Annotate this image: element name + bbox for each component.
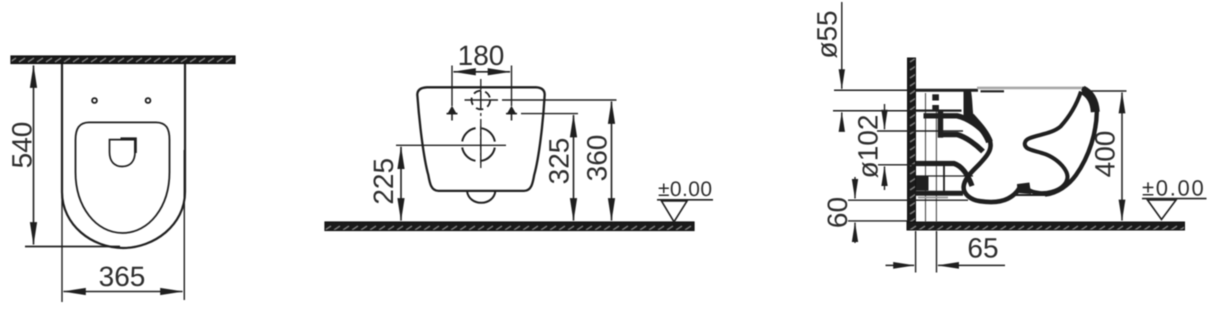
svg-text:325: 325 bbox=[544, 138, 575, 185]
svg-text:225: 225 bbox=[368, 158, 399, 205]
svg-text:65: 65 bbox=[967, 233, 998, 264]
svg-text:60: 60 bbox=[822, 197, 853, 228]
svg-text:400: 400 bbox=[1090, 131, 1121, 178]
svg-text:365: 365 bbox=[99, 261, 146, 292]
svg-text:±0.00: ±0.00 bbox=[658, 178, 712, 201]
svg-text:±0.00: ±0.00 bbox=[1142, 176, 1205, 201]
svg-text:ø102: ø102 bbox=[853, 115, 884, 179]
svg-text:360: 360 bbox=[582, 135, 613, 182]
svg-text:180: 180 bbox=[458, 40, 505, 71]
svg-text:540: 540 bbox=[7, 122, 38, 169]
svg-text:ø55: ø55 bbox=[812, 10, 843, 58]
